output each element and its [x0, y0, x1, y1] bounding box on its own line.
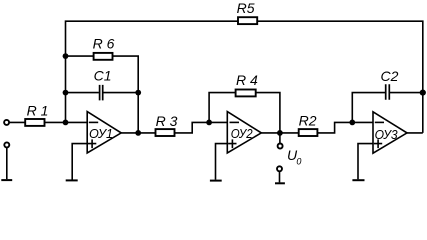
svg-text:ОУ2: ОУ2 — [231, 127, 253, 142]
svg-text:R 1: R 1 — [27, 102, 49, 118]
svg-text:R 4: R 4 — [236, 72, 258, 88]
svg-text:ОУ3: ОУ3 — [375, 127, 398, 141]
svg-text:R5: R5 — [237, 0, 255, 16]
svg-text:ОУ1: ОУ1 — [89, 126, 113, 141]
svg-text:R2: R2 — [299, 113, 317, 129]
svg-text:R 6: R 6 — [93, 36, 115, 52]
svg-text:C1: C1 — [94, 67, 112, 83]
svg-text:0: 0 — [296, 157, 301, 167]
svg-text:C2: C2 — [381, 68, 399, 84]
svg-text:R 3: R 3 — [156, 113, 178, 129]
